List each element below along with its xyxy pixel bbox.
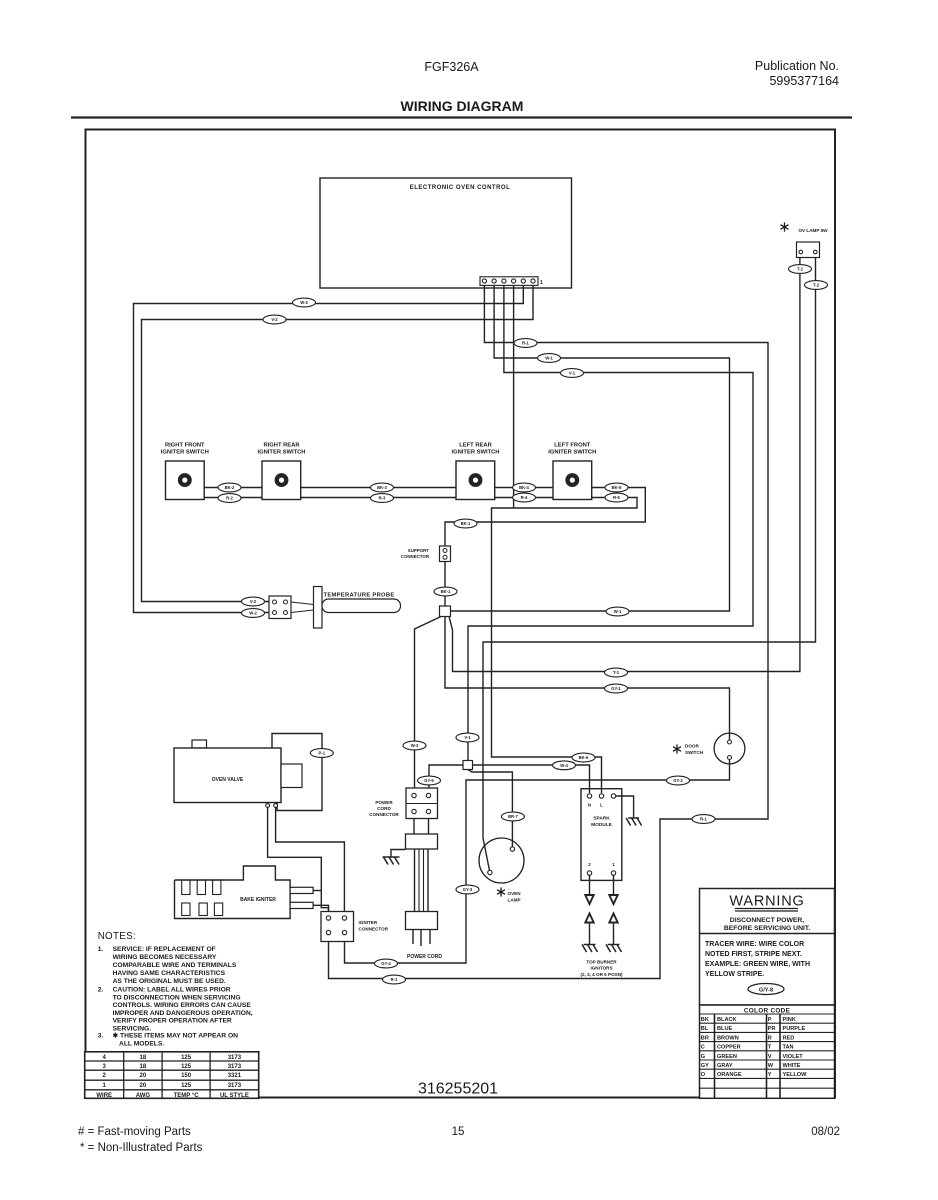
wire RR-LR lower <box>301 497 456 499</box>
svg-text:GREEN: GREEN <box>717 1054 737 1060</box>
svg-text:BROWN: BROWN <box>717 1035 739 1041</box>
igniter connector pin TR <box>342 916 346 920</box>
warning box <box>700 889 835 1006</box>
svg-text:YELLOW STRIPE.: YELLOW STRIPE. <box>705 971 764 978</box>
svg-text:EXAMPLE: GREEN WIRE, WITH: EXAMPLE: GREEN WIRE, WITH <box>705 961 810 968</box>
wire gauge table <box>85 1052 259 1099</box>
bake igniter slot bottom 2 <box>199 903 207 916</box>
svg-text:BL: BL <box>701 1026 709 1032</box>
wire label GY-4 <box>375 959 398 968</box>
temperature probe taper bottom <box>291 610 314 613</box>
svg-text:G/Y-8: G/Y-8 <box>759 987 773 993</box>
svg-text:GRAY: GRAY <box>717 1063 733 1069</box>
wire pin4 down to switch feed <box>513 286 515 509</box>
svg-text:W-2: W-2 <box>300 300 308 305</box>
svg-text:DOOR: DOOR <box>685 744 699 749</box>
svg-text:3321: 3321 <box>228 1073 242 1079</box>
wire connector to strain relief right <box>428 819 430 835</box>
svg-text:5995377164: 5995377164 <box>769 74 839 88</box>
electronic oven control box U1 <box>320 178 572 288</box>
svg-text:125: 125 <box>181 1055 192 1061</box>
svg-text:(2, 3, 4 OR 5 POSN): (2, 3, 4 OR 5 POSN) <box>580 972 623 977</box>
svg-text:R: R <box>768 1035 772 1041</box>
wire label W-2 <box>293 298 316 307</box>
svg-text:BAKE IGNITER: BAKE IGNITER <box>240 897 276 903</box>
svg-text:15: 15 <box>452 1126 465 1138</box>
svg-text:R-5: R-5 <box>613 495 620 500</box>
temp probe wire label V-2 <box>242 597 265 606</box>
svg-text:W-1: W-1 <box>614 609 622 614</box>
svg-text:W: W <box>768 1063 774 1069</box>
svg-text:IGNITORS: IGNITORS <box>590 966 612 971</box>
wire oven valve right to igniter connector <box>276 808 345 916</box>
svg-text:1.: 1. <box>98 946 104 953</box>
svg-text:L: L <box>600 803 603 808</box>
power cord strain relief <box>406 834 438 849</box>
title underline rule <box>71 116 852 118</box>
wire OV lamp right to oven lamp <box>483 258 816 873</box>
svg-text:COPPER: COPPER <box>717 1045 741 1051</box>
asterisk for oven lamp <box>497 887 505 896</box>
svg-text:WIRING DIAGRAM: WIRING DIAGRAM <box>401 98 524 114</box>
wire label T-2 <box>805 281 828 290</box>
svg-text:R-3: R-3 <box>379 496 386 501</box>
svg-text:GY-1: GY-1 <box>611 686 621 691</box>
wire oven valve left to igniter connector <box>268 808 329 916</box>
oven valve terminal right <box>274 804 278 808</box>
svg-text:V-1: V-1 <box>569 371 576 376</box>
svg-text:R-4: R-4 <box>521 495 528 500</box>
tracer example oval G/Y-8 <box>748 984 784 995</box>
wire label GY-1 <box>605 684 628 693</box>
junction node B <box>463 761 473 770</box>
wire junction A to door switch <box>445 617 730 742</box>
svg-text:P-1: P-1 <box>319 751 326 756</box>
svg-text:W-2: W-2 <box>249 611 257 616</box>
wire label R-1 <box>514 339 537 348</box>
svg-text:O: O <box>701 1072 706 1078</box>
svg-text:IGNITER SWITCH: IGNITER SWITCH <box>548 450 596 456</box>
svg-text:NOTES:: NOTES: <box>98 931 136 942</box>
wire pin6 to left bus <box>142 286 534 602</box>
svg-text:# = Fast-moving Parts: # = Fast-moving Parts <box>78 1126 191 1138</box>
svg-text:1: 1 <box>540 280 543 286</box>
wire label W-1 <box>538 354 561 363</box>
asterisk for door switch <box>673 744 681 753</box>
oven lamp terminal bottom <box>488 870 492 874</box>
wire label W-4 <box>553 761 576 770</box>
OV LAMP box <box>797 242 820 258</box>
wire label R-1c <box>383 975 406 984</box>
bake igniter slot top 1 <box>182 880 190 895</box>
junction node A <box>440 606 451 617</box>
svg-text:VIOLET: VIOLET <box>783 1054 804 1060</box>
wire label GY-5 <box>418 776 441 785</box>
wire label BK-6 <box>572 753 595 762</box>
svg-text:IMPROPER AND DANGEROUS OPERATI: IMPROPER AND DANGEROUS OPERATION, <box>113 1010 253 1017</box>
svg-text:CONNECTOR: CONNECTOR <box>359 927 389 932</box>
svg-text:LAMP: LAMP <box>508 898 521 903</box>
svg-text:IGNITER SWITCH: IGNITER SWITCH <box>161 450 209 456</box>
svg-text:YELLOW: YELLOW <box>783 1072 808 1078</box>
temp probe wire label W-2 <box>242 609 265 618</box>
svg-text:GY-2: GY-2 <box>673 778 683 783</box>
door switch terminal top <box>728 740 732 744</box>
OV LAMP terminal left <box>799 250 803 254</box>
svg-text:LEFT FRONT: LEFT FRONT <box>554 443 591 449</box>
wire junction B to spark module N <box>473 765 590 793</box>
temperature probe connector <box>269 596 291 619</box>
svg-text:R-1: R-1 <box>522 341 529 346</box>
svg-text:316255201: 316255201 <box>418 1081 498 1098</box>
EOC pin 6 <box>531 279 535 283</box>
wire label BK-5 <box>605 483 628 492</box>
ground symbol burner at 613.5 <box>606 945 622 953</box>
svg-text:LEFT REAR: LEFT REAR <box>459 443 492 449</box>
svg-text:SERVICING.: SERVICING. <box>113 1025 152 1032</box>
svg-text:BLUE: BLUE <box>717 1026 732 1032</box>
wire pin5 to left bus <box>134 286 524 613</box>
RIGHT FRONT igniter switch box <box>166 461 205 500</box>
LEFT REAR igniter switch box <box>456 461 495 500</box>
svg-text:BK-3: BK-3 <box>377 485 387 490</box>
asterisk for OV LAMP <box>781 222 789 231</box>
svg-text:RED: RED <box>783 1035 795 1041</box>
bake igniter slot top 2 <box>197 880 205 895</box>
svg-text:C: C <box>701 1045 705 1051</box>
svg-text:OV LAMP 5W: OV LAMP 5W <box>798 228 828 233</box>
plug prong 2 <box>420 930 422 947</box>
svg-text:TO DISCONNECTION WHEN SERVICIN: TO DISCONNECTION WHEN SERVICING <box>113 994 241 1001</box>
svg-text:20: 20 <box>140 1073 147 1079</box>
svg-text:PR: PR <box>768 1026 776 1032</box>
wire OV lamp left to junction A chain <box>449 258 800 672</box>
svg-text:T-1: T-1 <box>797 267 804 272</box>
svg-text:P: P <box>768 1017 772 1023</box>
svg-text:TEMP °C: TEMP °C <box>174 1093 200 1099</box>
spark gap electrode up at 589.5 <box>585 914 593 923</box>
wire label R-5 <box>605 493 628 502</box>
wire LR-LF lower <box>495 497 553 499</box>
svg-text:GY-4: GY-4 <box>381 961 391 966</box>
temperature probe body <box>322 599 401 613</box>
wire door switch to igniter connector <box>345 760 730 964</box>
svg-text:COMPARABLE WIRE AND TERMINALS: COMPARABLE WIRE AND TERMINALS <box>113 962 237 969</box>
svg-text:20: 20 <box>140 1083 147 1089</box>
svg-text:ALL MODELS.: ALL MODELS. <box>119 1040 164 1047</box>
svg-text:WIRING BECOMES NECESSARY: WIRING BECOMES NECESSARY <box>113 954 217 961</box>
svg-text:OVEN: OVEN <box>508 891 522 896</box>
EOC pin 3 <box>502 279 506 283</box>
temperature probe taper top <box>291 602 314 605</box>
svg-text:150: 150 <box>181 1073 192 1079</box>
wire module ground <box>616 796 634 818</box>
svg-text:POWER: POWER <box>375 800 393 805</box>
svg-text:CAUTION: LABEL ALL WIRES PRI: CAUTION: LABEL ALL WIRES PRIOR <box>113 987 231 994</box>
svg-text:T: T <box>768 1045 772 1051</box>
wire label BK-2 <box>218 483 241 492</box>
svg-text:18: 18 <box>140 1055 147 1061</box>
color code table <box>700 1005 835 1098</box>
RIGHT REAR igniter switch box <box>262 461 301 500</box>
svg-text:125: 125 <box>181 1083 192 1089</box>
EOC pin 1 <box>482 279 486 283</box>
ground lead strain relief <box>391 850 406 858</box>
svg-text:18: 18 <box>140 1064 147 1070</box>
svg-text:BR-7: BR-7 <box>508 814 518 819</box>
svg-text:WARNING: WARNING <box>729 894 804 910</box>
svg-text:✱ THESE ITEMS MAY NOT APPEAR O: ✱ THESE ITEMS MAY NOT APPEAR ON <box>113 1032 239 1040</box>
svg-text:IGNITER SWITCH: IGNITER SWITCH <box>452 450 500 456</box>
plug prong 3 <box>429 930 431 945</box>
oven valve body <box>174 748 281 803</box>
ground symbol burner at 589.5 <box>582 945 598 953</box>
wire label T-1 <box>789 265 812 274</box>
ground symbol spark module <box>626 818 642 826</box>
svg-text:SERVICE: IF REPLACEMENT OF: SERVICE: IF REPLACEMENT OF <box>113 946 216 953</box>
wire pin2 to junction A <box>451 286 730 612</box>
svg-text:WHITE: WHITE <box>783 1063 801 1069</box>
svg-text:BEFORE SERVICING UNIT.: BEFORE SERVICING UNIT. <box>724 925 810 932</box>
igniter connector box <box>321 912 354 942</box>
svg-text:SUPPORT: SUPPORT <box>408 548 430 553</box>
svg-text:BK-5: BK-5 <box>612 485 622 490</box>
oven valve side block <box>281 764 302 788</box>
RIGHT FRONT igniter switch contact <box>179 474 192 487</box>
spark gap electrode down at 589.5 <box>589 876 591 896</box>
spark gap electrode up at 613.5 <box>609 914 617 923</box>
svg-text:TAN: TAN <box>783 1045 794 1051</box>
wire label R-2 <box>218 494 241 503</box>
wire label GY-3 <box>456 885 479 894</box>
spark module terminal G <box>611 794 615 798</box>
LEFT FRONT igniter switch contact <box>566 474 579 487</box>
wire label V-2 <box>263 315 286 324</box>
svg-text:BR: BR <box>701 1035 709 1041</box>
svg-text:W-3: W-3 <box>411 743 419 748</box>
wire label T-1b <box>605 668 628 677</box>
wire label W-3 <box>403 741 426 750</box>
EOC connector strip P1 <box>480 277 538 286</box>
bake igniter prong lower <box>290 902 313 908</box>
svg-text:V: V <box>768 1054 772 1060</box>
power cord plug <box>406 912 438 930</box>
oven valve terminal left <box>266 804 270 808</box>
wire RR-LR upper <box>301 487 456 489</box>
svg-text:GY: GY <box>701 1063 709 1069</box>
wire prong upper junction <box>313 890 321 892</box>
wire RF-RR upper <box>204 487 262 489</box>
svg-text:WIRE: WIRE <box>96 1093 112 1099</box>
power cord connector pin TL <box>412 793 416 797</box>
ground symbol power cord <box>383 857 400 865</box>
wire junction A to power cord connector <box>415 617 442 791</box>
svg-text:CONTROLS. WIRING ERRORS CAN: CONTROLS. WIRING ERRORS CAN CAUSE <box>113 1002 252 1009</box>
svg-text:DISCONNECT POWER,: DISCONNECT POWER, <box>730 917 805 924</box>
oven lamp terminal top <box>510 847 514 851</box>
svg-text:SWITCH: SWITCH <box>685 750 704 755</box>
svg-text:PURPLE: PURPLE <box>783 1026 806 1032</box>
svg-text:IGNITER: IGNITER <box>359 920 378 925</box>
wire RF-RR lower <box>204 497 262 499</box>
wire label GY-2 <box>667 776 690 785</box>
wire LR-LF upper <box>495 487 553 489</box>
wire pin1 to igniter connector <box>329 286 769 979</box>
svg-text:BK-2: BK-2 <box>225 485 235 490</box>
spark gap electrode down at 613.5 <box>613 876 615 896</box>
bake igniter prong upper <box>290 887 313 893</box>
EOC pin 4 <box>511 279 515 283</box>
wire LF upper to support connector <box>445 488 645 547</box>
svg-text:PINK: PINK <box>783 1017 796 1023</box>
wire label P-1 <box>310 749 333 758</box>
svg-text:UL STYLE: UL STYLE <box>220 1093 249 1099</box>
svg-text:AWG: AWG <box>136 1093 151 1099</box>
power cord cable <box>414 849 416 912</box>
plug prong 1 <box>412 930 414 945</box>
svg-text:08/02: 08/02 <box>811 1126 840 1138</box>
svg-text:* = Non-Illustrated Parts: * = Non-Illustrated Parts <box>80 1142 203 1154</box>
svg-text:BLACK: BLACK <box>717 1017 737 1023</box>
wire label R-4 <box>513 493 536 502</box>
svg-text:IGNITER SWITCH: IGNITER SWITCH <box>258 450 306 456</box>
svg-text:ELECTRONIC OVEN CONTROL: ELECTRONIC OVEN CONTROL <box>410 185 511 191</box>
svg-text:N: N <box>588 803 591 808</box>
bake igniter slot bottom 3 <box>214 903 222 916</box>
igniter connector pin BR <box>342 930 346 934</box>
wire LF lower to spark module L <box>492 498 638 794</box>
wire label BK-3 <box>371 483 394 492</box>
wire label R-3 <box>371 494 394 503</box>
bake igniter slot bottom 1 <box>182 903 190 916</box>
svg-text:POWER CORD: POWER CORD <box>407 954 442 960</box>
svg-text:V-2: V-2 <box>271 317 278 322</box>
svg-text:G: G <box>701 1054 705 1060</box>
spark module terminal 1 <box>611 871 615 875</box>
wire prong lower to connector <box>313 905 328 915</box>
svg-text:Y: Y <box>768 1072 772 1078</box>
LEFT FRONT igniter switch box <box>553 461 592 500</box>
svg-text:GY-5: GY-5 <box>424 778 434 783</box>
svg-text:3173: 3173 <box>228 1064 242 1070</box>
oven valve top tab <box>192 740 207 748</box>
power cord connector box <box>406 788 438 819</box>
svg-text:GY-3: GY-3 <box>463 887 473 892</box>
svg-text:SPARK: SPARK <box>593 816 610 822</box>
svg-text:2.: 2. <box>98 987 104 994</box>
svg-text:AS THE ORIGINAL MUST BE USED.: AS THE ORIGINAL MUST BE USED. <box>113 978 226 985</box>
svg-text:NOTED FIRST, STRIPE NEXT.: NOTED FIRST, STRIPE NEXT. <box>705 951 802 958</box>
svg-text:125: 125 <box>181 1064 192 1070</box>
svg-text:CORD: CORD <box>377 806 391 811</box>
svg-text:OVEN VALVE: OVEN VALVE <box>212 777 244 783</box>
spark module terminal 2 <box>587 871 591 875</box>
svg-text:W-4: W-4 <box>560 763 568 768</box>
svg-text:BK: BK <box>701 1017 709 1023</box>
svg-text:BK-4: BK-4 <box>519 485 529 490</box>
bake igniter slot top 3 <box>213 880 221 895</box>
wire junction B to power cord connector <box>429 765 463 790</box>
svg-text:R-1: R-1 <box>391 977 398 982</box>
temperature probe flange <box>314 587 323 629</box>
svg-text:RIGHT FRONT: RIGHT FRONT <box>165 443 205 449</box>
wire label V-1b <box>456 733 479 742</box>
svg-text:CONNECTOR: CONNECTOR <box>369 812 399 817</box>
oven valve element wire <box>272 734 322 811</box>
OV LAMP terminal right <box>814 250 818 254</box>
power cord connector pin BL <box>412 809 416 813</box>
svg-text:HAVING SAME CHARACTERISTICS: HAVING SAME CHARACTERISTICS <box>113 970 226 977</box>
svg-text:TEMPERATURE PROBE: TEMPERATURE PROBE <box>324 593 395 599</box>
svg-text:TOP BURNER: TOP BURNER <box>586 960 617 965</box>
wire label BK-1 <box>454 519 477 528</box>
svg-text:FGF326A: FGF326A <box>424 60 479 74</box>
svg-text:BK-6: BK-6 <box>579 755 589 760</box>
power cord connector pin BR <box>426 809 430 813</box>
svg-text:T-2: T-2 <box>813 283 820 288</box>
wire label W-1b <box>606 607 629 616</box>
igniter connector pin TL <box>326 916 330 920</box>
svg-text:VERIFY PROPER OPERATION AFTER: VERIFY PROPER OPERATION AFTER <box>113 1018 232 1025</box>
EOC pin 5 <box>521 279 525 283</box>
door switch body S1 <box>714 733 745 764</box>
wire label BK-1b <box>434 587 457 596</box>
oven lamp bulb <box>479 838 524 883</box>
wire label BR-7 <box>501 812 524 821</box>
wire support connector to junction A <box>444 562 446 607</box>
svg-text:TRACER WIRE: WIRE COLOR: TRACER WIRE: WIRE COLOR <box>705 941 804 948</box>
spark module terminal L <box>599 794 603 798</box>
svg-text:BK-1: BK-1 <box>441 589 451 594</box>
svg-text:W-1: W-1 <box>545 356 553 361</box>
door switch terminal bottom <box>728 756 732 760</box>
svg-text:R-2: R-2 <box>226 496 233 501</box>
wire junction B to oven lamp <box>468 770 512 850</box>
EOC pin 2 <box>492 279 496 283</box>
support connector <box>440 546 451 562</box>
wire label R-1b <box>692 815 715 824</box>
spark module terminal N <box>587 794 591 798</box>
svg-text:V-2: V-2 <box>250 599 257 604</box>
svg-text:RIGHT REAR: RIGHT REAR <box>263 443 300 449</box>
svg-text:R-1: R-1 <box>700 817 707 822</box>
igniter connector pin BL <box>326 930 330 934</box>
svg-text:T-1: T-1 <box>613 670 620 675</box>
wire pin3 to junction B <box>468 286 753 761</box>
svg-text:CONNECTOR: CONNECTOR <box>401 554 430 559</box>
bake igniter body <box>175 866 291 919</box>
svg-text:ORANGE: ORANGE <box>717 1072 742 1078</box>
wire label BK-4 <box>513 483 536 492</box>
power cord connector pin TR <box>426 793 430 797</box>
LEFT REAR igniter switch contact <box>469 474 482 487</box>
svg-text:V-1: V-1 <box>464 735 471 740</box>
svg-text:3173: 3173 <box>228 1055 242 1061</box>
wire connector to strain relief left <box>413 819 415 835</box>
diagram border frame <box>86 130 836 1098</box>
RIGHT REAR igniter switch contact <box>275 474 288 487</box>
svg-text:BK-1: BK-1 <box>461 521 471 526</box>
spark module box <box>581 789 622 881</box>
wire label V-1 <box>561 369 584 378</box>
svg-text:MODULE: MODULE <box>591 822 613 828</box>
svg-text:Publication No.: Publication No. <box>755 59 839 73</box>
svg-text:3.: 3. <box>98 1033 104 1040</box>
svg-text:3173: 3173 <box>228 1083 242 1089</box>
